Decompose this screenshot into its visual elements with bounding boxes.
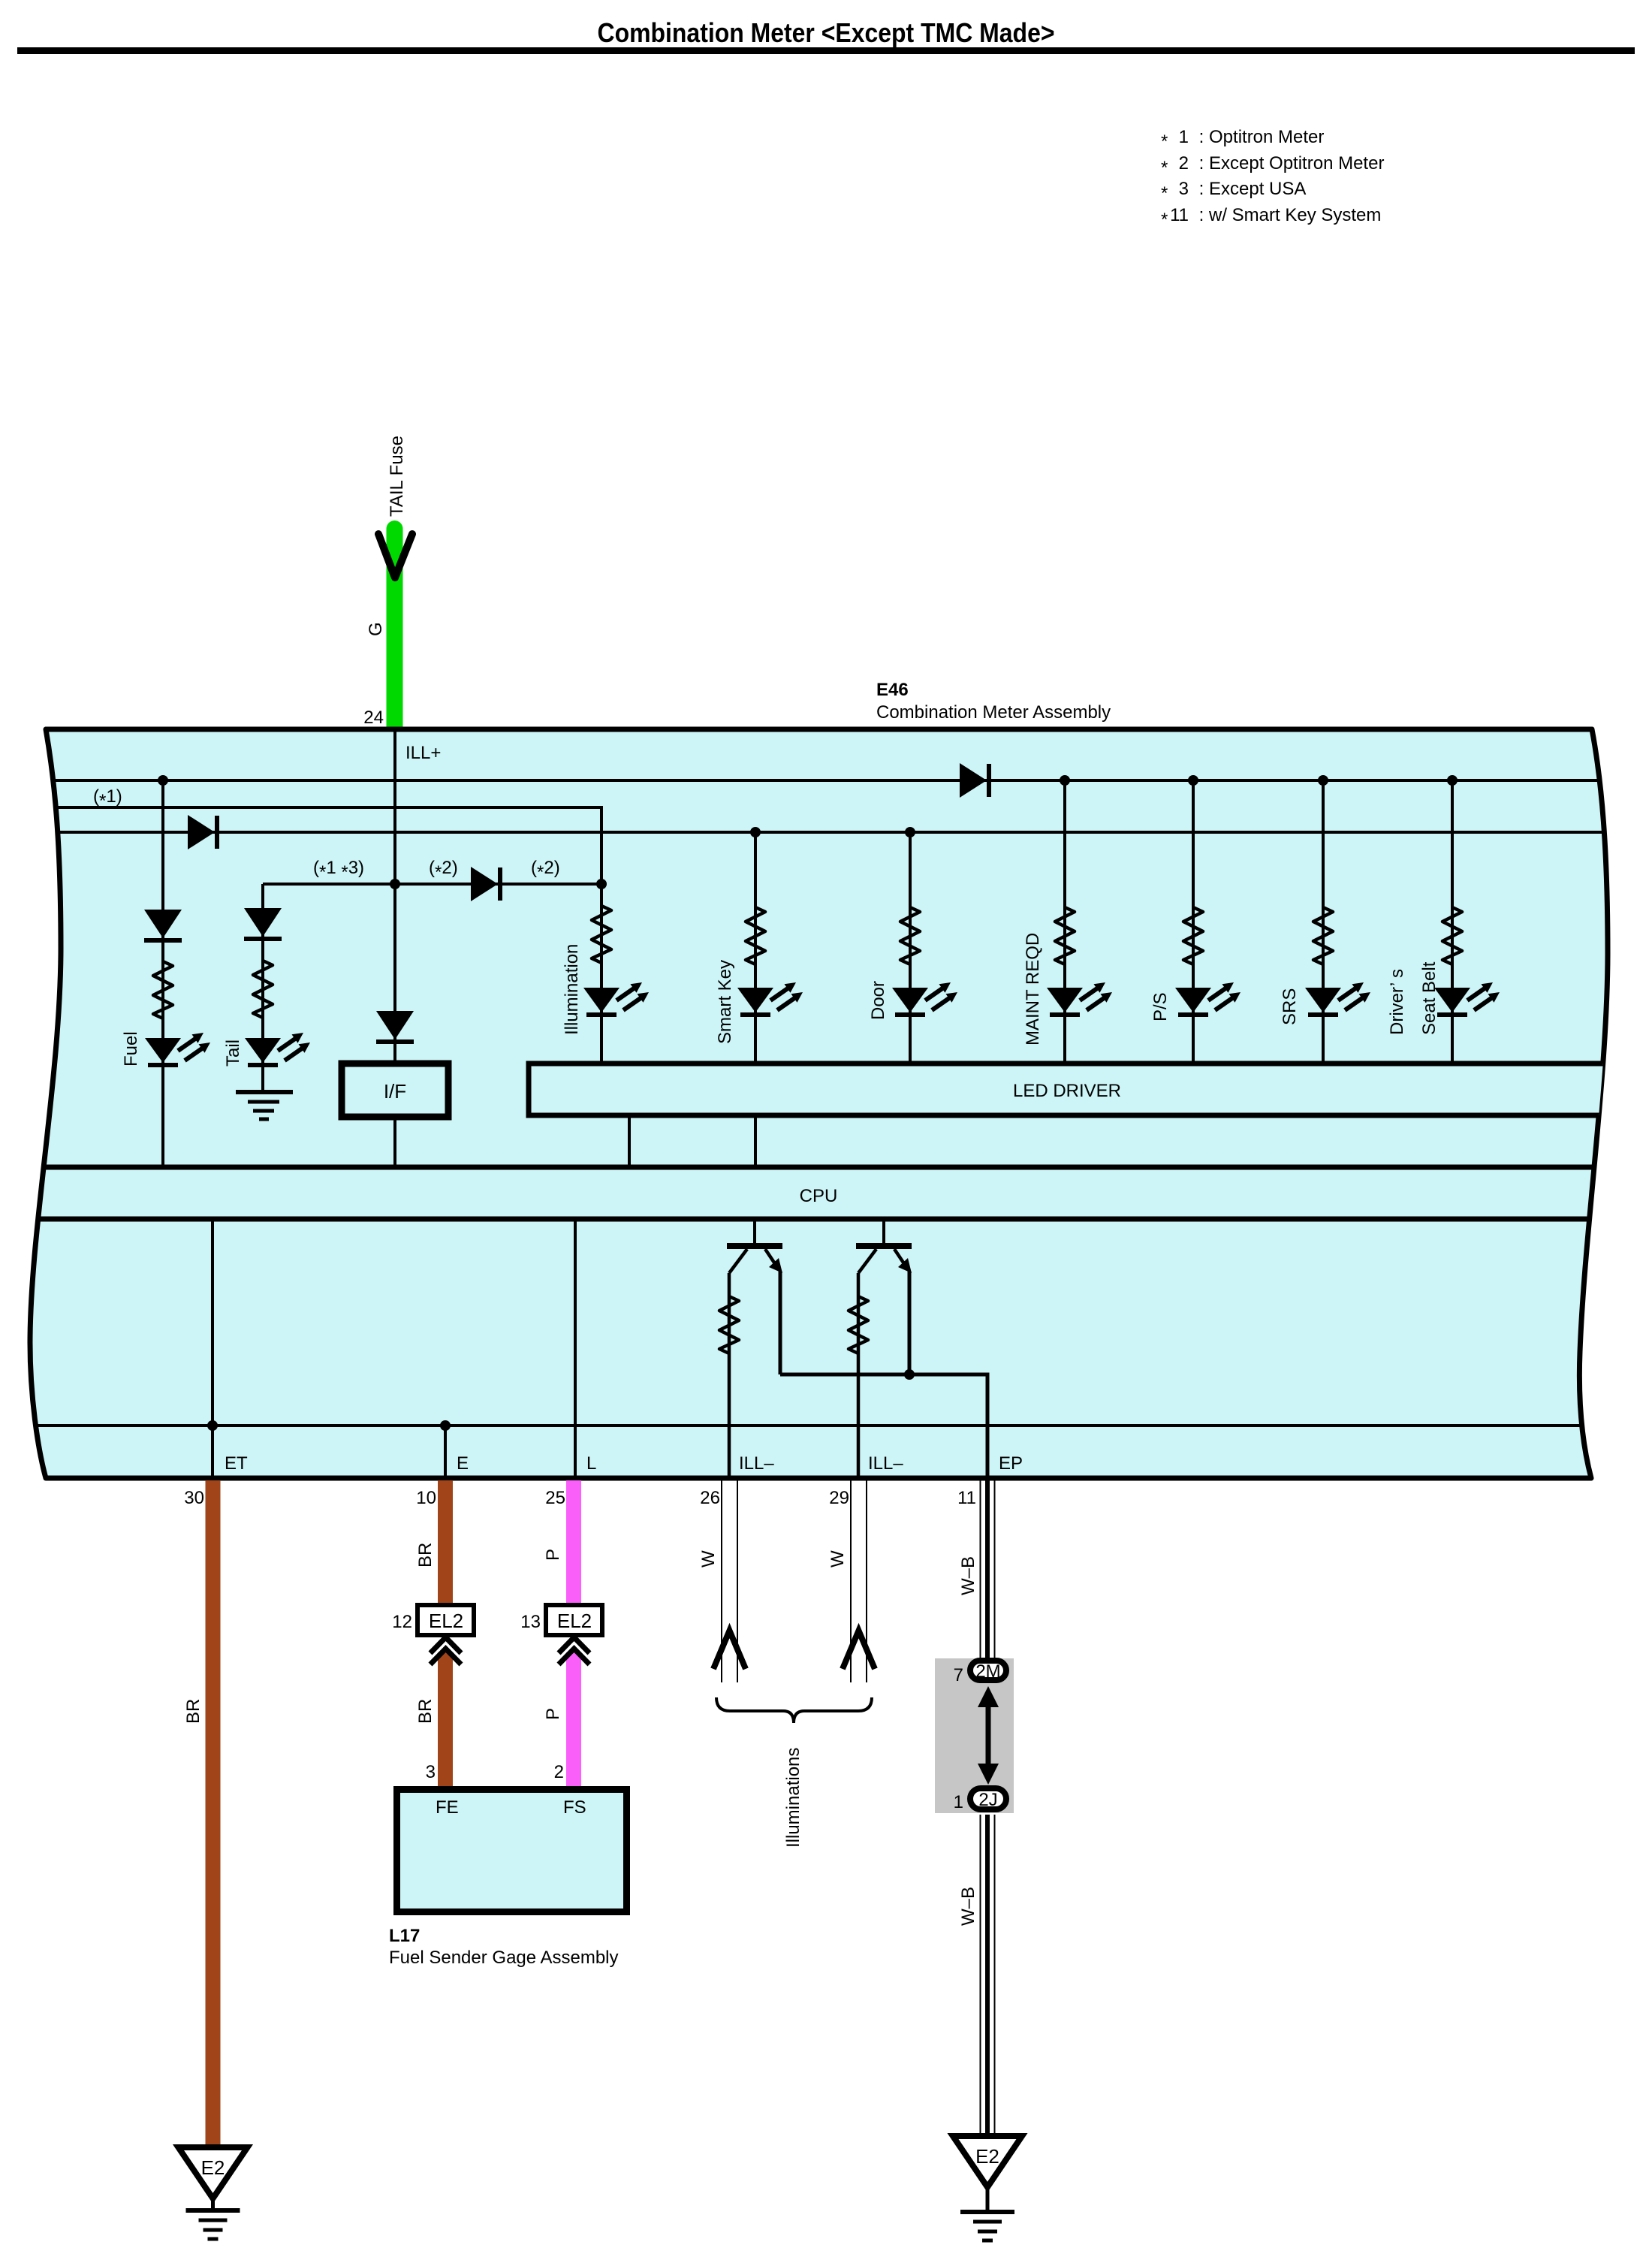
svg-text:Smart Key: Smart Key bbox=[715, 960, 735, 1044]
wire: (*1 *3) branch line bbox=[263, 883, 601, 886]
svg-text:E46: E46 bbox=[876, 680, 909, 700]
LED "MAINT REQD" bbox=[1047, 982, 1112, 1017]
junction connector 2M bbox=[970, 1661, 1006, 1680]
svg-text:E2: E2 bbox=[201, 2156, 225, 2179]
svg-text:W–B: W–B bbox=[958, 1556, 978, 1595]
svg-text:FS: FS bbox=[563, 1797, 586, 1818]
svg-text:BR: BR bbox=[183, 1699, 203, 1724]
wire BR from EL2 to FE bbox=[438, 1652, 453, 1787]
svg-text:SRS: SRS bbox=[1280, 988, 1300, 1025]
LED "Tail" bbox=[245, 1033, 310, 1067]
svg-text:LED DRIVER: LED DRIVER bbox=[1013, 1081, 1121, 1101]
I/F block bbox=[342, 1064, 448, 1117]
diode (on (*1 *3) line) bbox=[471, 867, 502, 901]
svg-text:Door: Door bbox=[868, 981, 888, 1020]
junction node: Fuel branch on bus line 1 bbox=[158, 775, 168, 786]
junction node ILL+ / (*1 *3) bbox=[390, 879, 400, 889]
svg-text:BR: BR bbox=[415, 1699, 436, 1724]
CPU block bottom line bbox=[23, 1217, 1629, 1222]
wire: inner bottom bus bbox=[23, 1424, 1629, 1427]
wire: Smart Key branch vertical bbox=[754, 832, 757, 1064]
svg-text:24: 24 bbox=[363, 708, 384, 728]
svg-text:ET: ET bbox=[225, 1453, 248, 1474]
junction connector 2J bbox=[970, 1788, 1006, 1809]
ground (internal, Tail cathode) bbox=[236, 1092, 293, 1119]
wire W from pin 29 (to illuminations) bbox=[850, 1480, 852, 1682]
svg-text:P: P bbox=[543, 1549, 563, 1561]
LED "SRS" bbox=[1305, 982, 1370, 1017]
svg-text:Driver’ s: Driver’ s bbox=[1387, 969, 1407, 1035]
svg-text:Tail: Tail bbox=[223, 1039, 243, 1067]
diode (on ILL+ bus line 1) bbox=[960, 763, 991, 798]
wire: Illumination branch vertical bbox=[600, 832, 603, 1064]
wire: emitters join to EP bbox=[780, 1374, 987, 1478]
svg-text:P: P bbox=[543, 1708, 563, 1720]
LED "P/S" bbox=[1175, 982, 1241, 1017]
svg-text:W: W bbox=[828, 1550, 848, 1568]
wire: LED DRIVER to CPU (left) bbox=[628, 1115, 631, 1167]
resistor (Tail chain) bbox=[253, 961, 273, 1018]
wire: Q1 emitter vertical bbox=[779, 1271, 782, 1374]
svg-text:ILL–: ILL– bbox=[739, 1453, 774, 1474]
svg-text:EP: EP bbox=[999, 1453, 1023, 1474]
junction node: SRS branch bbox=[1318, 775, 1328, 786]
transistor Q2 base bar bbox=[856, 1243, 912, 1249]
wire: ILL+ vertical from pin 24 bbox=[393, 729, 396, 1167]
LED DRIVER block bbox=[529, 1064, 1652, 1115]
svg-text:TAIL Fuse: TAIL Fuse bbox=[387, 436, 407, 517]
svg-text:7: 7 bbox=[954, 1665, 963, 1685]
transistor Q1 base lead bbox=[753, 1219, 756, 1244]
svg-text:Fuel Sender Gage Assembly: Fuel Sender Gage Assembly bbox=[389, 1948, 619, 1968]
wire: SRS branch vertical bbox=[1322, 780, 1325, 1064]
wire P from EL2 to FS bbox=[566, 1652, 581, 1787]
svg-text:I/F: I/F bbox=[384, 1080, 406, 1103]
svg-text:BR: BR bbox=[415, 1543, 436, 1568]
diode (above I/F) bbox=[376, 1011, 414, 1044]
svg-text:26: 26 bbox=[700, 1488, 720, 1508]
wire: ET pin vertical bbox=[211, 1219, 214, 1478]
wire: Tail branch vertical bbox=[261, 884, 264, 1091]
svg-text:FE: FE bbox=[436, 1797, 459, 1818]
transistor Q2 emitter with arrow bbox=[894, 1249, 905, 1265]
wire: MAINT REQD branch vertical bbox=[1063, 780, 1066, 1064]
arrow into 2J bbox=[978, 1764, 999, 1785]
transistor Q1 base bar bbox=[727, 1243, 782, 1249]
svg-text:13: 13 bbox=[520, 1612, 541, 1632]
wire: bus line 2 (*1) bbox=[23, 807, 601, 884]
junction node: P/S branch bbox=[1188, 775, 1198, 786]
wire W from pin 26 (to illuminations) bbox=[721, 1480, 722, 1682]
junction node E bbox=[440, 1420, 451, 1431]
junction node: Driver's Seat Belt branch bbox=[1447, 775, 1458, 786]
svg-text:W–B: W–B bbox=[958, 1887, 978, 1926]
wire: E pin vertical bbox=[444, 1426, 447, 1478]
wire BR from pin 30 to ground E2 bbox=[206, 1480, 221, 2148]
LED "Illumination" bbox=[583, 982, 649, 1017]
svg-text:E2: E2 bbox=[975, 2145, 999, 2168]
wire P from pin 25 to EL2 bbox=[566, 1480, 581, 1605]
svg-text:E: E bbox=[457, 1453, 469, 1474]
svg-text:MAINT REQD: MAINT REQD bbox=[1023, 933, 1043, 1046]
junction node ET bbox=[207, 1420, 218, 1431]
junction node: Smart Key branch bbox=[750, 827, 761, 837]
svg-text:12: 12 bbox=[392, 1612, 412, 1632]
svg-text:2J: 2J bbox=[978, 1790, 997, 1810]
LED "Smart Key" bbox=[737, 982, 803, 1017]
junction node: Door branch bbox=[905, 827, 915, 837]
svg-text:11: 11 bbox=[957, 1488, 976, 1508]
LED "Fuel" bbox=[145, 1033, 210, 1067]
svg-text:10: 10 bbox=[416, 1488, 436, 1508]
wire: ILL+ bus line 1 bbox=[23, 779, 1629, 782]
wire: Q1 collector vertical to ILL- pin bbox=[728, 1273, 731, 1478]
transistor Q2 collector bbox=[858, 1249, 876, 1273]
svg-text:ILL+: ILL+ bbox=[405, 743, 441, 763]
svg-text:CPU: CPU bbox=[800, 1186, 838, 1206]
CPU block top line bbox=[23, 1165, 1629, 1170]
combination meter assembly box E46 bbox=[30, 729, 1608, 1478]
svg-text:Illuminations: Illuminations bbox=[783, 1748, 803, 1848]
svg-text:2M: 2M bbox=[975, 1661, 1000, 1682]
resistor (SRS chain) bbox=[1313, 907, 1333, 964]
svg-text:P/S: P/S bbox=[1150, 992, 1171, 1021]
component box: Fuel Sender Gage Assembly L17 bbox=[397, 1790, 627, 1912]
junction connector block (gray) bbox=[935, 1658, 1014, 1813]
junction node: emitter join bbox=[904, 1369, 915, 1380]
connector EL2 pin 13 bbox=[546, 1605, 602, 1635]
diode (on bus line 3) bbox=[188, 815, 219, 849]
junction node: Illumination branch bbox=[596, 879, 607, 889]
diode (Tail chain) bbox=[244, 908, 282, 941]
LED "Driver's Seat Belt" bbox=[1434, 982, 1500, 1017]
svg-text:L: L bbox=[586, 1453, 596, 1474]
wire W-B from pin 11 to junction connector 2M bbox=[980, 1480, 981, 1658]
diode (Fuel chain) bbox=[144, 910, 182, 943]
svg-text:Combination Meter <Except TMC: Combination Meter <Except TMC Made> bbox=[598, 17, 1055, 48]
svg-text:EL2: EL2 bbox=[429, 1610, 463, 1632]
connector chevron (wire W from pin 26) bbox=[713, 1631, 746, 1669]
resistor (Driver's Seat Belt chain) bbox=[1442, 907, 1462, 964]
LED "Door" bbox=[892, 982, 957, 1017]
wire: Q2 emitter vertical bbox=[908, 1271, 912, 1374]
wire: Driver's Seat Belt branch vertical bbox=[1451, 780, 1454, 1064]
svg-text:29: 29 bbox=[829, 1488, 849, 1508]
svg-text:Illumination: Illumination bbox=[562, 944, 582, 1035]
wire G from TAIL Fuse (green) bbox=[387, 529, 403, 730]
svg-text:2: 2 bbox=[554, 1762, 564, 1782]
resistor (Q1 collector) bbox=[719, 1296, 739, 1353]
transistor Q2 base lead bbox=[882, 1219, 885, 1244]
transistor Q1 collector bbox=[729, 1249, 747, 1273]
svg-text:Fuel: Fuel bbox=[121, 1031, 141, 1067]
svg-text:L17: L17 bbox=[389, 1926, 420, 1946]
title rule bbox=[17, 47, 1635, 54]
wire BR from pin 10 to EL2 bbox=[438, 1480, 453, 1605]
system connection arrow from TAIL Fuse bbox=[378, 534, 412, 578]
ground E2 (right) bbox=[953, 2136, 1022, 2240]
wire: P/S branch vertical bbox=[1192, 780, 1195, 1064]
svg-text:Combination Meter Assembly: Combination Meter Assembly bbox=[876, 702, 1111, 723]
wire: Fuel branch vertical bbox=[161, 780, 164, 1167]
resistor (Door chain) bbox=[900, 907, 920, 964]
wire: Door branch vertical bbox=[909, 832, 912, 1064]
svg-text:25: 25 bbox=[545, 1488, 565, 1508]
connector chevrons (EL2/12) bbox=[430, 1637, 461, 1664]
svg-text:30: 30 bbox=[184, 1488, 204, 1508]
arrow into 2M bbox=[978, 1686, 999, 1707]
connector chevron (wire W from pin 29) bbox=[843, 1631, 875, 1669]
resistor (Illumination chain) bbox=[592, 906, 611, 963]
resistor (Q2 collector) bbox=[849, 1296, 868, 1353]
junction node: MAINT REQD branch bbox=[1060, 775, 1070, 786]
transistor Q1 emitter with arrow bbox=[765, 1249, 776, 1265]
resistor (MAINT REQD chain) bbox=[1055, 907, 1075, 964]
svg-text:W: W bbox=[698, 1550, 719, 1568]
wire W-B from 2J to ground E2 bbox=[980, 1815, 981, 2136]
resistor (P/S chain) bbox=[1183, 907, 1203, 964]
svg-text:G: G bbox=[366, 622, 386, 636]
wire: LED DRIVER to CPU (right) bbox=[754, 1115, 757, 1167]
svg-text:EL2: EL2 bbox=[557, 1610, 592, 1632]
svg-text:1: 1 bbox=[954, 1792, 963, 1812]
wire through junction block bbox=[986, 1703, 991, 1767]
resistor (Fuel chain) bbox=[153, 961, 173, 1018]
ground E2 (left) bbox=[179, 2147, 248, 2239]
wire: bus line 3 bbox=[23, 831, 1629, 834]
wire: L pin vertical bbox=[574, 1219, 577, 1478]
wire: Q2 collector vertical to ILL- pin bbox=[857, 1273, 861, 1478]
svg-text:ILL–: ILL– bbox=[868, 1453, 903, 1474]
svg-text:Seat Belt: Seat Belt bbox=[1419, 961, 1439, 1035]
connector EL2 pin 12 bbox=[418, 1605, 474, 1635]
connector chevrons (EL2/13) bbox=[559, 1637, 589, 1664]
svg-text:3: 3 bbox=[426, 1762, 436, 1782]
brace: Illuminations bbox=[716, 1697, 872, 1723]
resistor (Smart Key chain) bbox=[746, 907, 765, 964]
